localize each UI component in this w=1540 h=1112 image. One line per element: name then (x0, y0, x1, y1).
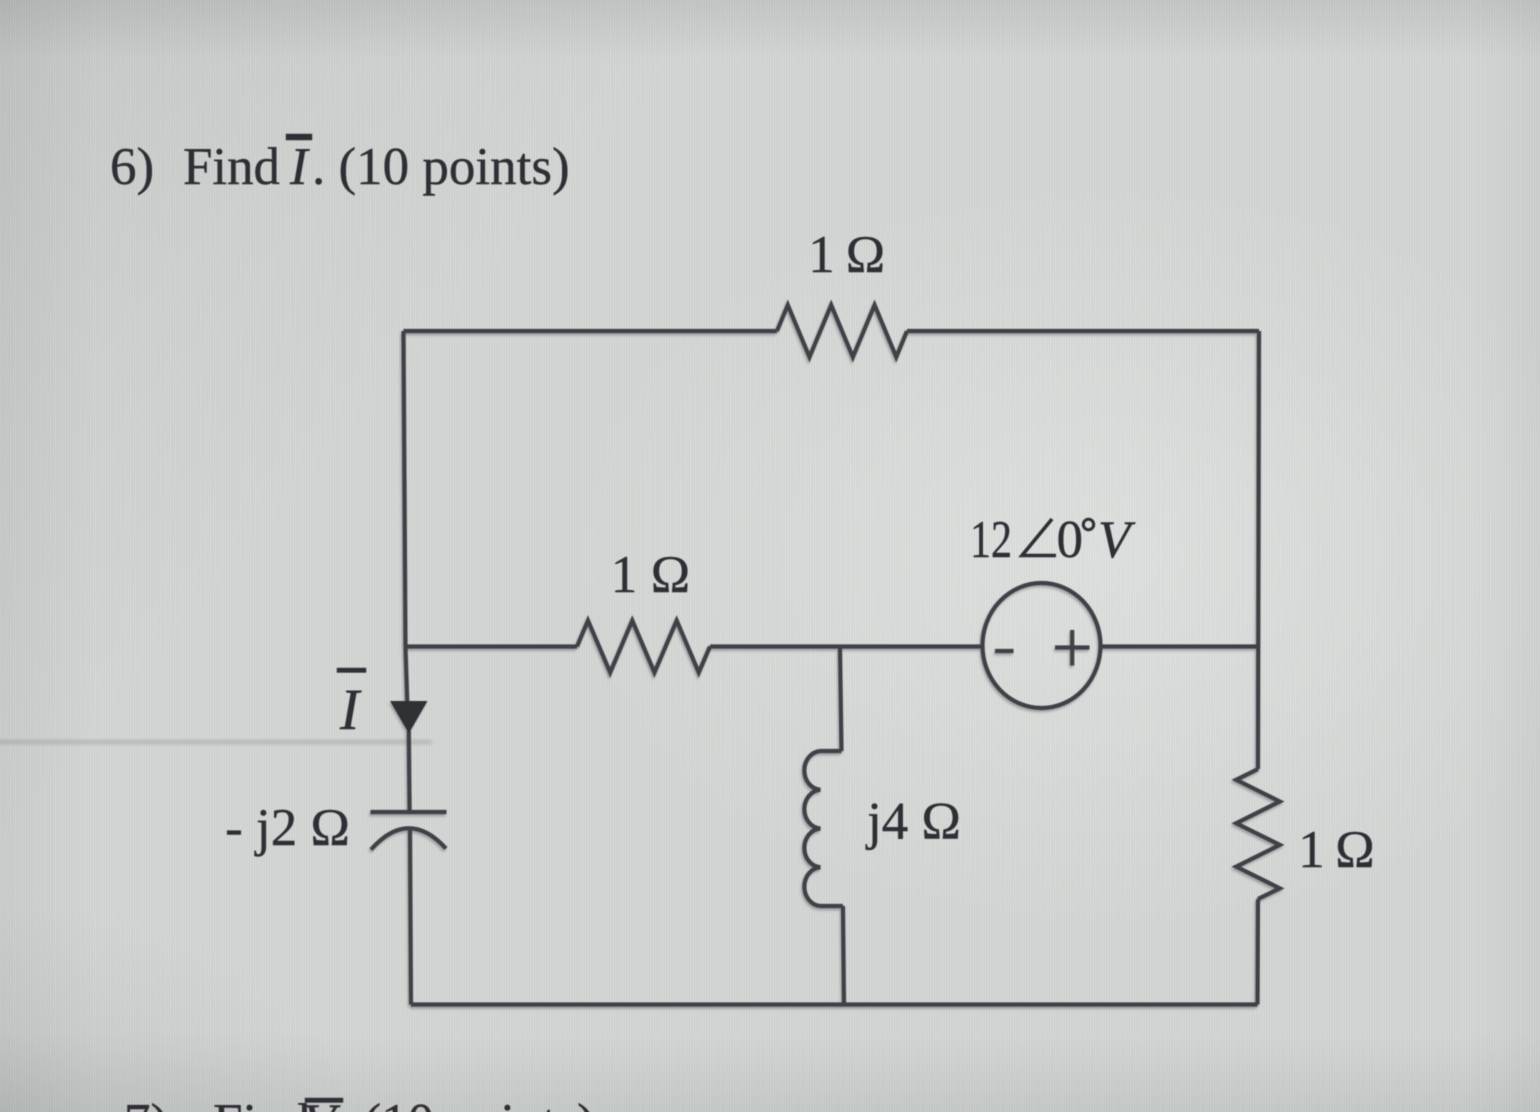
svg-text:I: I (289, 138, 310, 196)
wire top left-to-right (404, 329, 778, 333)
inductor L j4 coil jog bottom (821, 904, 844, 908)
faint smudge streak (0, 740, 432, 744)
label source degree (1083, 519, 1093, 529)
svg-text:Ω: Ω (1335, 821, 1374, 879)
wire middle branch from mid-wire down (840, 647, 842, 752)
wire top right segment (907, 329, 1259, 333)
svg-text:1: 1 (808, 226, 835, 284)
svg-text:12: 12 (970, 511, 1012, 569)
capacitor C -j2 top plate (371, 810, 447, 814)
current arrow on left branch (390, 701, 428, 734)
resistor R-mid 1ohm zigzag (577, 621, 710, 673)
inductor L j4 coil bumps (804, 751, 820, 906)
label Ibar near arrow: overbar (337, 668, 366, 673)
svg-text:6): 6) (110, 138, 154, 196)
wire below capacitor (410, 829, 411, 1005)
bottom cropped overbar (305, 1098, 343, 1103)
svg-text:- j2 Ω: - j2 Ω (225, 799, 350, 857)
title Ibar overbar (286, 134, 312, 140)
wire middle horizontal segment 1 (406, 644, 578, 648)
svg-text:7): 7) (124, 1094, 168, 1112)
wire middle horizontal segment 2 (710, 644, 982, 648)
svg-text:. (10 points): . (10 points) (337, 1094, 595, 1112)
plus sign inside source (1055, 630, 1090, 666)
wire arrow-tip to capacitor (407, 731, 412, 810)
svg-text:1: 1 (1298, 821, 1325, 879)
minus sign inside source (995, 649, 1014, 653)
svg-text:Find: Find (183, 138, 280, 196)
svg-text:. (10 points): . (10 points) (312, 138, 570, 196)
wire right upper (1258, 331, 1259, 769)
wire middle horizontal segment 3 (1101, 644, 1260, 648)
svg-text:j4 Ω: j4 Ω (865, 793, 961, 851)
wire left upper (404, 331, 406, 647)
svg-text:Find: Find (213, 1094, 310, 1112)
wire left to arrow (406, 647, 408, 703)
capacitor C -j2 curved bottom plate (371, 828, 446, 849)
resistor R-right 1ohm zigzag (1236, 769, 1280, 899)
label source angle symbol (1022, 519, 1056, 556)
svg-text:V: V (1098, 511, 1136, 569)
inductor L j4 coil jog top (821, 749, 842, 753)
wire right lower (1255, 899, 1260, 1005)
wire middle branch lower (843, 906, 844, 1005)
svg-text:V: V (303, 1094, 341, 1112)
wire bottom (411, 1002, 1258, 1006)
svg-text:Ω: Ω (846, 226, 885, 284)
resistor R-top 1ohm zigzag (777, 305, 907, 357)
svg-text:I: I (339, 677, 362, 742)
svg-text:1: 1 (611, 546, 638, 604)
svg-text:Ω: Ω (651, 546, 690, 604)
voltage source V1 circle (983, 583, 1101, 708)
svg-text:0: 0 (1057, 511, 1084, 569)
